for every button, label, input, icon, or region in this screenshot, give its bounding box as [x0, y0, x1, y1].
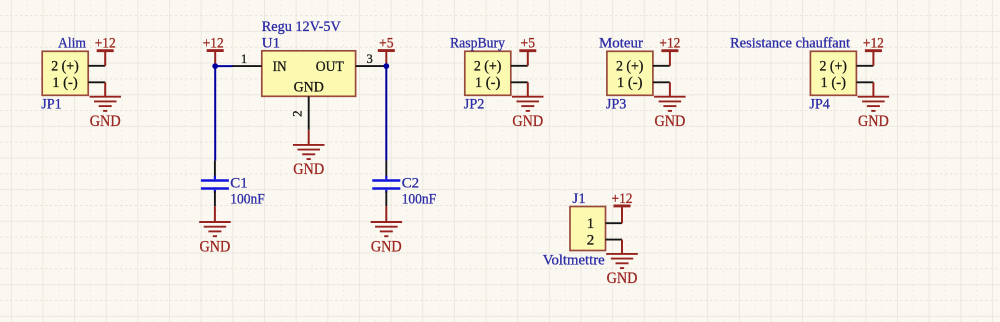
wire	[215, 65, 232, 67]
svg-text:GND: GND	[512, 111, 543, 130]
pin 2	[289, 96, 308, 130]
ground	[654, 82, 686, 130]
wire	[385, 65, 386, 67]
svg-text:1 (-): 1 (-)	[820, 75, 846, 91]
svg-text:U1: U1	[262, 35, 280, 51]
svg-text:1 (-): 1 (-)	[475, 75, 501, 91]
wire	[214, 66, 216, 161]
svg-text:IN: IN	[273, 59, 287, 75]
svg-text:GND: GND	[200, 236, 231, 255]
connector JP2	[465, 51, 528, 95]
ground	[90, 82, 122, 130]
connector J1	[570, 207, 622, 251]
connector JP4	[810, 51, 873, 95]
svg-text:2 (+): 2 (+)	[616, 59, 644, 75]
svg-text:C1: C1	[230, 176, 248, 192]
svg-text:100nF: 100nF	[402, 191, 437, 207]
svg-text:+12: +12	[203, 36, 224, 52]
svg-text:+12: +12	[612, 191, 633, 207]
svg-text:JP4: JP4	[809, 97, 830, 113]
svg-text:1 (-): 1 (-)	[52, 75, 78, 91]
regulator U1	[262, 51, 356, 97]
svg-text:GND: GND	[607, 268, 638, 287]
svg-text:GND: GND	[293, 159, 324, 178]
svg-text:1: 1	[587, 216, 595, 232]
pin 1	[232, 52, 262, 66]
svg-text:GND: GND	[294, 79, 324, 95]
svg-text:100nF: 100nF	[230, 191, 264, 207]
svg-text:GND: GND	[90, 111, 121, 130]
svg-text:J1: J1	[572, 191, 585, 207]
svg-text:2 (+): 2 (+)	[51, 59, 79, 75]
svg-text:Resistance chauffant: Resistance chauffant	[730, 36, 851, 52]
connector JP1	[42, 51, 105, 95]
svg-text:2: 2	[587, 232, 595, 248]
svg-text:+12: +12	[95, 36, 116, 52]
ground	[858, 82, 890, 130]
svg-text:Regu 12V-5V: Regu 12V-5V	[262, 19, 341, 35]
svg-text:JP3: JP3	[606, 97, 627, 113]
ground	[199, 206, 231, 255]
svg-text:2: 2	[289, 110, 304, 117]
junction	[212, 63, 218, 69]
svg-text:+12: +12	[863, 36, 884, 52]
svg-text:GND: GND	[655, 111, 686, 130]
svg-text:Voltmettre: Voltmettre	[543, 252, 605, 268]
connector JP3	[607, 51, 670, 95]
svg-text:Moteur: Moteur	[599, 36, 643, 52]
power +5	[519, 36, 536, 66]
svg-text:C2: C2	[402, 176, 420, 192]
svg-text:1: 1	[241, 52, 247, 66]
svg-text:2 (+): 2 (+)	[819, 59, 847, 75]
svg-text:+12: +12	[659, 36, 680, 52]
svg-text:2 (+): 2 (+)	[474, 59, 502, 75]
svg-text:RaspBury: RaspBury	[450, 36, 505, 52]
capacitor C1	[201, 161, 229, 207]
capacitor C2	[372, 161, 400, 207]
svg-text:JP2: JP2	[464, 97, 485, 113]
ground	[371, 206, 403, 255]
power +12	[95, 36, 116, 66]
ground	[293, 130, 325, 178]
svg-text:3: 3	[366, 52, 372, 66]
power +12	[659, 36, 680, 66]
junction	[383, 63, 389, 69]
svg-text:OUT: OUT	[316, 59, 344, 75]
svg-text:GND: GND	[371, 236, 402, 255]
pin 3	[356, 52, 386, 66]
wire	[385, 66, 387, 161]
svg-text:Alim: Alim	[58, 36, 86, 52]
svg-text:JP1: JP1	[41, 97, 62, 113]
ground	[606, 240, 638, 288]
svg-text:+5: +5	[521, 36, 536, 52]
ground	[512, 82, 544, 130]
svg-text:GND: GND	[858, 111, 889, 130]
power +12	[612, 191, 633, 223]
svg-text:1 (-): 1 (-)	[617, 75, 643, 91]
power +12	[863, 36, 884, 66]
power +5	[378, 36, 395, 67]
svg-text:+5: +5	[379, 36, 394, 52]
power +12	[203, 36, 224, 67]
